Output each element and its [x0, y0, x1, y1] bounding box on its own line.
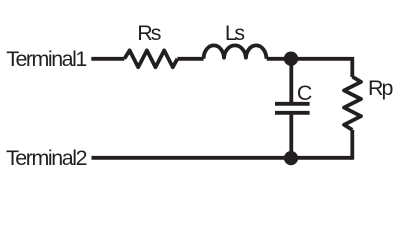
svg-text:Ls: Ls	[225, 21, 245, 45]
wire Terminal1 to Rs	[91, 57, 124, 61]
svg-text:C: C	[297, 81, 312, 105]
svg-text:Terminal2: Terminal2	[6, 146, 88, 170]
resistor Rs	[124, 50, 177, 67]
inductor Ls notch stem 1	[223, 53, 225, 60]
resistor Rp	[344, 77, 361, 130]
wire top dot down to capacitor C	[289, 59, 293, 102]
node junction dot bottom	[284, 151, 298, 165]
capacitor C top plate	[275, 102, 310, 106]
svg-text:Rp: Rp	[368, 76, 393, 100]
wire Ls to top-right corner and down to Rp	[267, 59, 353, 77]
wire Terminal2 bottom rail	[92, 156, 353, 160]
inductor Ls notch stem 2	[245, 53, 247, 60]
wire Rp to bottom-right corner	[350, 130, 354, 160]
node junction dot top	[284, 52, 298, 66]
svg-text:Terminal1: Terminal1	[6, 47, 87, 71]
wire capacitor C to bottom dot	[289, 115, 293, 158]
inductor Ls	[204, 45, 267, 58]
capacitor C bottom plate	[275, 111, 310, 115]
svg-text:Rs: Rs	[137, 21, 161, 45]
wire Rs to Ls	[177, 57, 203, 61]
